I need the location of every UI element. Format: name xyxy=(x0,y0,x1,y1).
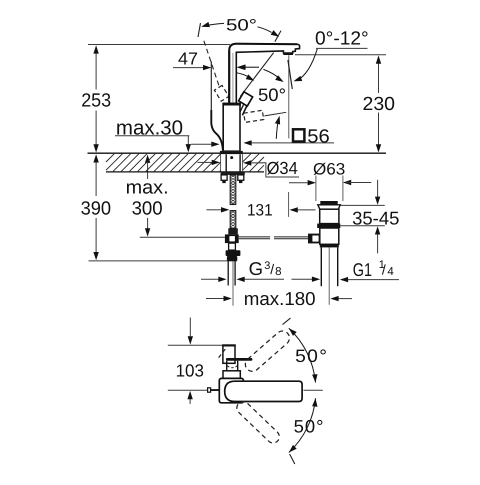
svg-text:max.180: max.180 xyxy=(244,288,316,309)
svg-text:131: 131 xyxy=(247,201,273,219)
svg-text:G: G xyxy=(249,258,263,279)
svg-text:G1: G1 xyxy=(353,259,372,280)
svg-text:50°: 50° xyxy=(295,346,328,366)
svg-text:/: / xyxy=(270,261,274,277)
svg-text:253: 253 xyxy=(81,91,111,112)
svg-text:35-45: 35-45 xyxy=(352,207,399,228)
svg-text:390: 390 xyxy=(81,198,112,219)
svg-text:50°: 50° xyxy=(294,417,325,437)
svg-text:56: 56 xyxy=(307,127,330,148)
svg-text:4: 4 xyxy=(387,266,394,278)
svg-text:300: 300 xyxy=(132,198,163,219)
svg-text:Ø63: Ø63 xyxy=(313,161,345,179)
svg-text:max.30: max.30 xyxy=(116,117,183,140)
svg-text:Ø34: Ø34 xyxy=(267,158,298,178)
svg-text:230: 230 xyxy=(363,94,396,115)
svg-text:103: 103 xyxy=(176,360,204,380)
svg-text:47: 47 xyxy=(178,48,198,68)
svg-text:0°-12°: 0°-12° xyxy=(315,29,369,50)
svg-text:max.: max. xyxy=(126,177,169,198)
svg-text:8: 8 xyxy=(275,266,281,278)
svg-text:50°: 50° xyxy=(226,16,257,34)
svg-text:/: / xyxy=(382,261,386,277)
svg-text:50°: 50° xyxy=(258,85,286,105)
